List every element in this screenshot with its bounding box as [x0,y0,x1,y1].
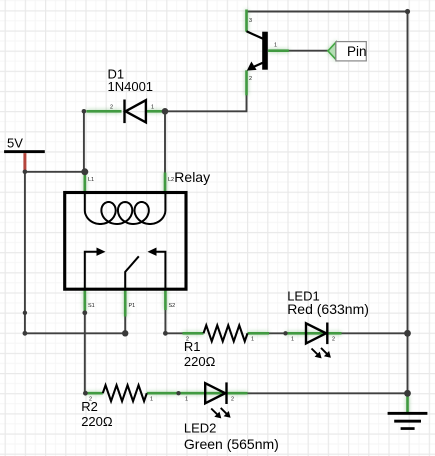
svg-text:P1: P1 [129,303,136,309]
resistor R2 [103,385,147,401]
wire: relay common pin stub down to node [124,317,126,334]
wire: right rail vertical [407,12,409,394]
wire: LED1 to right rail [342,332,408,334]
pin: transistor collector lead [245,10,248,32]
bendpoint relay switch pin [82,310,87,315]
green glow underlay [85,10,408,414]
svg-text:2: 2 [231,397,234,403]
tiny pin number labels [88,18,335,403]
wire: D1 cathode to 5V node [83,111,85,172]
pin: relay common pin [124,288,127,317]
wire: left rail from 5V down and right to relay common [25,172,125,333]
wire: emitter down, left to D1 anode node [165,95,247,111]
Q1 emitter arrow [247,62,257,71]
pin: LED2 cathode lead [227,392,248,395]
power 5V [4,150,45,171]
svg-text:1: 1 [150,397,153,403]
pin: R1 left lead [183,332,204,335]
svg-text:L1: L1 [88,177,94,183]
pin: D1 anode lead [146,110,163,113]
pin: transistor base lead [268,49,289,52]
svg-text:Pin: Pin [347,44,367,59]
svg-text:L2: L2 [168,177,174,183]
wire: 5V node horizontal [25,171,85,173]
junction R2 corner [83,391,88,396]
Q1 emitter stroke [249,63,263,69]
svg-text:3: 3 [249,18,252,24]
5V rail bar [4,150,45,153]
junction top-right corner [405,9,410,14]
node D: LED1 cathode to ground rail [404,330,411,337]
svg-text:S2: S2 [169,303,176,309]
pin: R1 right lead [248,332,270,335]
wire: collector top run to right rail [247,11,408,13]
LED1 triangle [306,323,326,343]
svg-text:LED2: LED2 [184,421,217,436]
pin: ground lead [406,396,409,414]
pin: R2 right lead [147,392,178,395]
svg-text:220Ω: 220Ω [184,354,216,369]
svg-text:2: 2 [186,337,189,343]
relay right contact arrow [154,252,165,288]
transistor Q1 [247,31,268,70]
wire: base to Pin label [289,50,328,52]
pin: LED1 cathode lead [327,332,341,335]
Pin net label [328,42,367,61]
LED2 cathode bar [225,382,227,404]
wire: R1 to LED1 link [269,332,286,334]
relay case [65,193,186,290]
node C: relay common pin [122,330,128,336]
node A: D1 anode / emitter / relay coil [162,108,169,115]
wire: D1 anode node down to relay coil pin [164,111,166,172]
svg-text:5V: 5V [7,136,23,151]
relay left contact arrow [85,252,99,288]
svg-text:S1: S1 [88,303,95,309]
svg-text:1: 1 [151,105,154,111]
LED2 triangle [205,383,225,403]
wire: relay right contact down to R1 row [165,310,182,333]
svg-text:220Ω: 220Ω [81,414,113,429]
bendpoint left rail [23,311,27,315]
LED2 emission arrows [211,408,228,416]
svg-text:Relay: Relay [174,169,210,185]
wire: LED2 to right rail [248,392,408,394]
relay K1 [65,193,186,290]
svg-text:2: 2 [89,397,92,403]
LED1 emission arrows [312,348,329,356]
pin: D1 cathode lead [86,110,121,113]
svg-text:1N4001: 1N4001 [108,79,154,94]
svg-text:1: 1 [274,43,277,49]
relay coil [85,194,166,224]
D1 triangle [126,100,146,122]
bendpoint R1-LED1 link [283,331,287,335]
junction relay contact corner [163,331,168,336]
svg-text:1: 1 [251,337,254,343]
relay common lever [125,256,139,288]
bendpoint R2-LED2 link [176,391,180,395]
node E: LED2 cathode / ground [404,390,411,397]
Q1 collector stroke [247,31,264,39]
5V red lead wire [23,153,26,171]
ground [388,412,428,430]
pin: relay switch left pin [84,288,87,311]
LED1 cathode bar [326,323,328,345]
diode D1 1N4001 [125,100,146,124]
resistor R1 [204,325,248,341]
svg-text:1: 1 [185,397,188,403]
node B: 5V rail / D1 / relay coil pin [81,168,88,175]
pin: LED2 anode lead [180,392,226,395]
pin: R2 left lead [85,392,102,395]
pin: relay coil right pin [164,173,167,195]
pin: LED1 anode lead [286,332,327,335]
svg-text:Red (633nm): Red (633nm) [287,301,369,317]
junction 5V corner [23,170,28,175]
wire: relay switch pin down to R2 row [84,313,86,393]
svg-text:2: 2 [110,105,113,111]
Q1 base bar [262,32,268,70]
pin: relay coil left pin [84,175,87,195]
junction left rail corner [23,331,28,336]
svg-text:2: 2 [249,76,252,82]
junction D1 cathode corner [82,109,87,114]
D1 cathode bar [123,100,125,124]
LED1 Red [306,323,331,359]
LED2 Green [205,382,230,418]
pin: relay right contact pin [164,288,167,310]
svg-text:Green (565nm): Green (565nm) [184,436,279,452]
svg-text:2: 2 [332,337,335,343]
svg-text:1: 1 [291,337,294,343]
pin: transistor emitter lead [245,70,248,95]
